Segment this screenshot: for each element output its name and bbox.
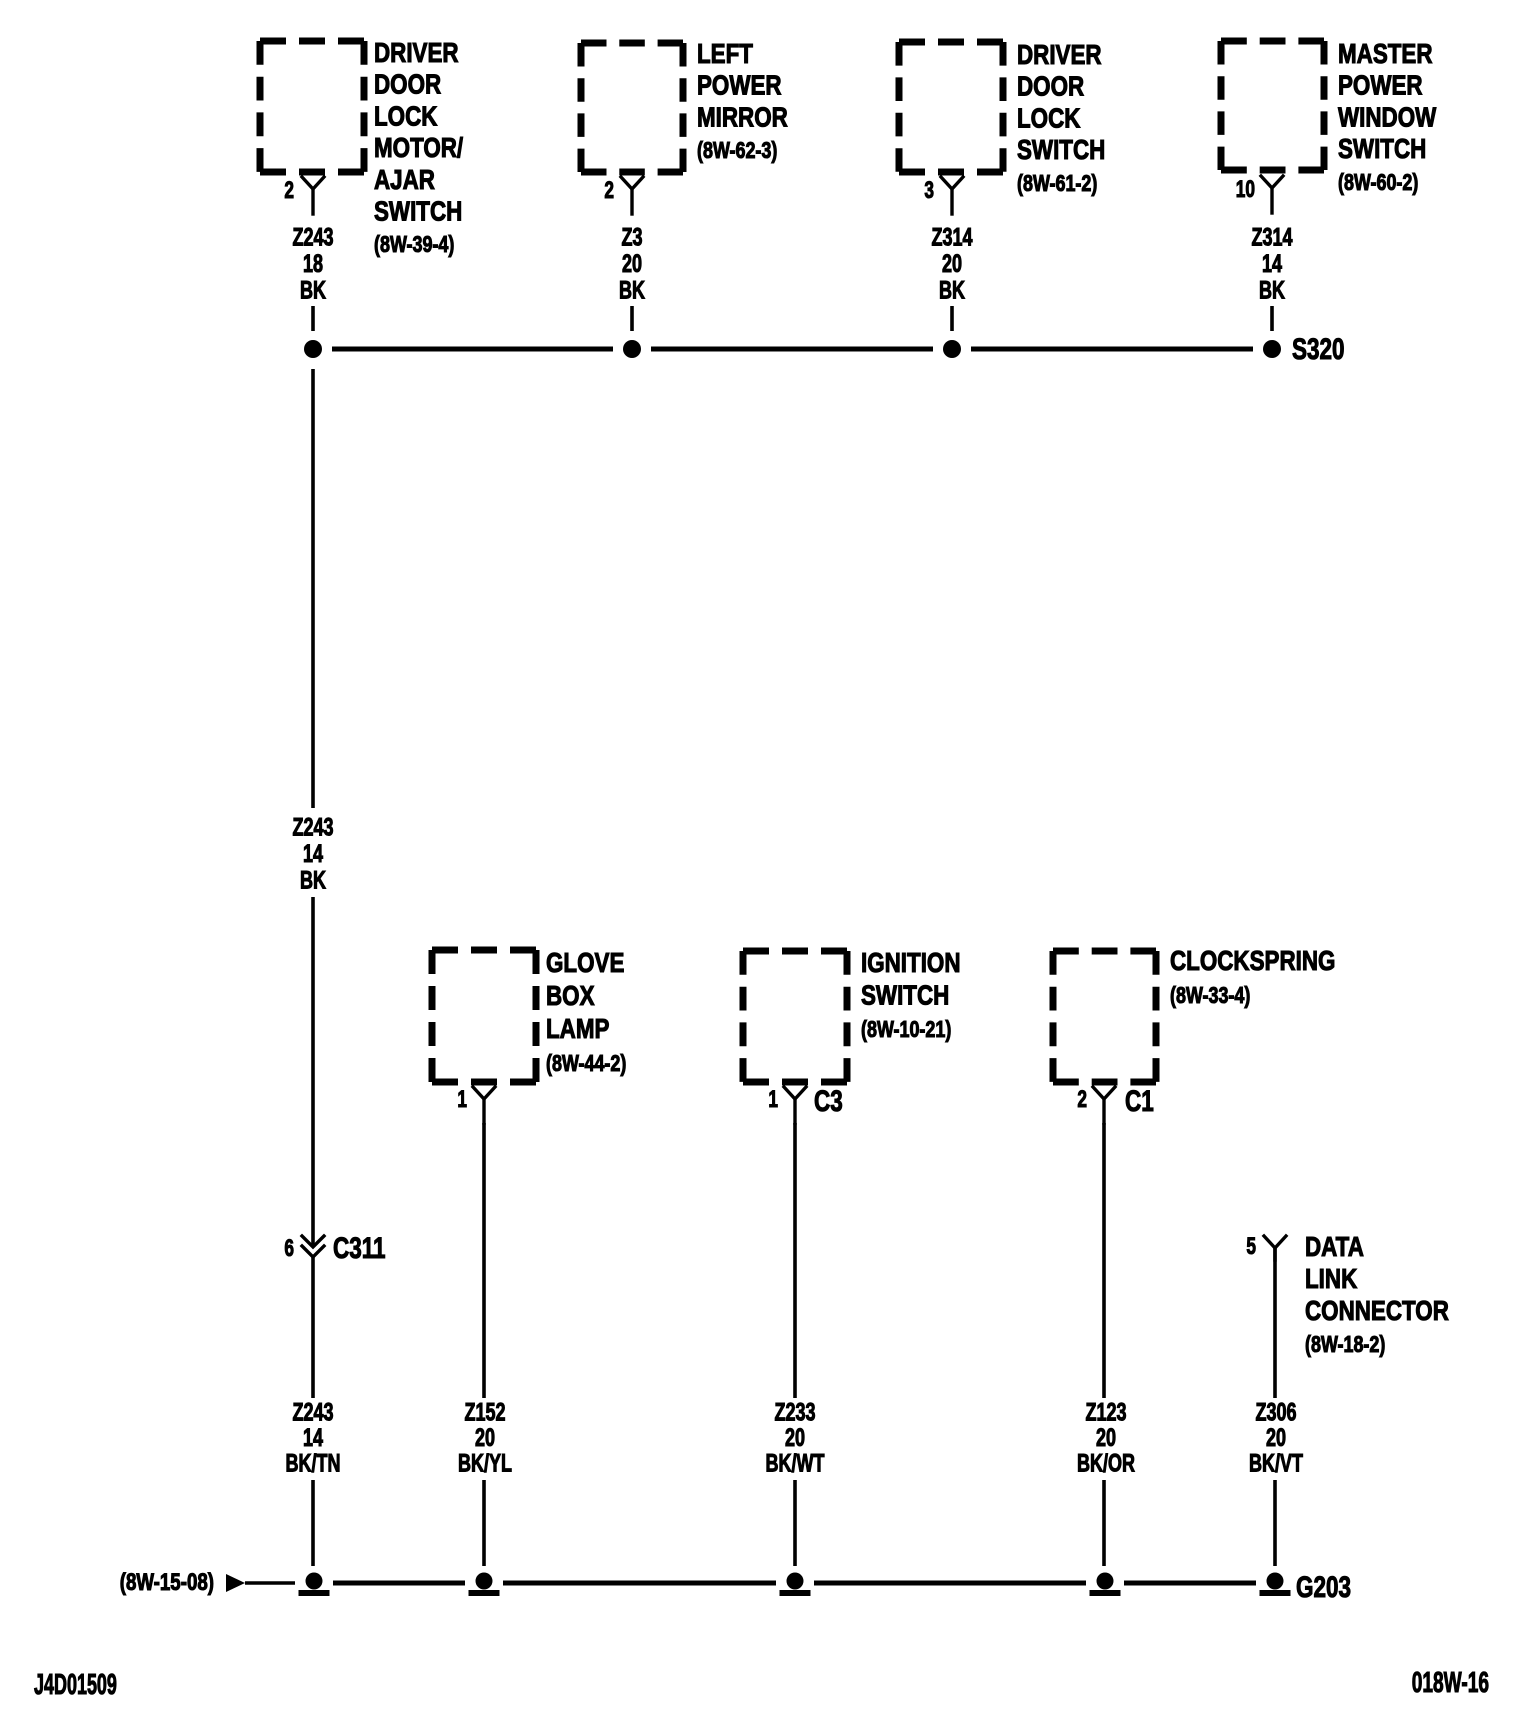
svg-text:LOCK: LOCK [374, 101, 438, 132]
label: data link connector [1305, 1232, 1449, 1358]
svg-text:14: 14 [303, 839, 323, 868]
wire label Z243 14 BK/TN [286, 1398, 341, 1478]
ground splice dot (Z306 / G203) [1267, 1573, 1284, 1590]
wire label Z314 20 BK [931, 223, 972, 305]
svg-text:SWITCH: SWITCH [861, 980, 949, 1011]
svg-text:(8W-60-2): (8W-60-2) [1338, 170, 1418, 196]
svg-text:Z233: Z233 [774, 1398, 815, 1427]
wire: Z123 drop [1102, 1123, 1106, 1398]
svg-text:BK/VT: BK/VT [1249, 1449, 1304, 1478]
component box: driver door lock switch [899, 42, 1003, 172]
svg-text:BOX: BOX [546, 981, 595, 1012]
svg-text:LAMP: LAMP [546, 1014, 610, 1045]
component box: glove box lamp [432, 950, 536, 1082]
svg-text:DATA: DATA [1305, 1232, 1364, 1263]
svg-text:2: 2 [284, 177, 294, 203]
svg-text:LINK: LINK [1305, 1264, 1358, 1295]
label: driver door lock switch [1017, 40, 1105, 197]
wire: ground bus to G203 [245, 1581, 295, 1585]
svg-text:MIRROR: MIRROR [697, 102, 788, 133]
svg-text:(8W-62-3): (8W-62-3) [697, 138, 777, 164]
svg-text:MOTOR/: MOTOR/ [374, 133, 463, 164]
wire: Z152 drop [482, 1123, 486, 1398]
component box: clockspring [1053, 951, 1156, 1082]
ground splice dot (Z123) [1097, 1573, 1114, 1590]
svg-text:(8W-61-2): (8W-61-2) [1017, 171, 1097, 197]
svg-text:Z243: Z243 [292, 1398, 333, 1427]
svg-text:POWER: POWER [1338, 70, 1423, 101]
svg-text:20: 20 [622, 249, 642, 278]
wire: Z233 to ground bus [793, 1480, 797, 1566]
svg-text:CLOCKSPRING: CLOCKSPRING [1170, 946, 1335, 977]
svg-text:(8W-44-2): (8W-44-2) [546, 1051, 626, 1077]
connector fork pin 2 of left power mirror [604, 177, 643, 214]
wire label Z243 18 BK [292, 223, 333, 305]
connector fork pin 2 of driver door lock motor [284, 177, 324, 214]
wire label Z123 20 BK/OR [1077, 1398, 1135, 1478]
wire: Z123 to ground bus [1102, 1480, 1106, 1566]
splice junction dot (left power mirror) [623, 340, 641, 358]
svg-text:WINDOW: WINDOW [1338, 102, 1436, 133]
svg-text:Z306: Z306 [1255, 1398, 1296, 1427]
connector fork pin 3 of driver door lock switch [924, 177, 963, 214]
svg-text:Z314: Z314 [1251, 223, 1292, 252]
svg-text:BK/YL: BK/YL [458, 1449, 512, 1478]
label: ignition switch [861, 948, 961, 1043]
wire label Z3 20 BK [619, 223, 645, 305]
svg-text:BK: BK [300, 866, 326, 895]
svg-text:20: 20 [785, 1423, 805, 1452]
svg-text:(8W-10-21): (8W-10-21) [861, 1017, 951, 1043]
svg-text:2: 2 [1077, 1086, 1087, 1112]
svg-text:(8W-18-2): (8W-18-2) [1305, 1332, 1385, 1358]
svg-text:1: 1 [457, 1086, 467, 1112]
connector fork pin 5 of data link connector [1246, 1233, 1286, 1260]
ground splice dot (Z243) [306, 1573, 323, 1590]
ground splice bar (Z152) [469, 1590, 500, 1596]
splice junction dot left [304, 340, 322, 358]
svg-text:IGNITION: IGNITION [861, 948, 961, 979]
svg-text:5: 5 [1246, 1233, 1256, 1259]
svg-text:GLOVE: GLOVE [546, 948, 624, 979]
wire: Z314 drop to splice S320 [1270, 306, 1274, 331]
svg-text:J4D01509: J4D01509 [34, 1669, 117, 1701]
svg-text:BK/TN: BK/TN [286, 1449, 341, 1478]
in-line connector C311 chevrons [302, 1236, 324, 1257]
label: master power window switch [1338, 39, 1436, 196]
svg-text:(8W-15-08): (8W-15-08) [120, 1569, 214, 1596]
svg-text:20: 20 [475, 1423, 495, 1452]
svg-text:BK/WT: BK/WT [766, 1449, 826, 1478]
svg-text:BK/OR: BK/OR [1077, 1449, 1135, 1478]
svg-text:LEFT: LEFT [697, 39, 753, 70]
wire label Z233 20 BK/WT [766, 1398, 826, 1478]
wire: Z314 drop to bus [950, 306, 954, 331]
ground splice dot (Z152) [476, 1573, 493, 1590]
svg-text:BK: BK [300, 276, 326, 305]
wire: Z152 to ground bus [482, 1480, 486, 1566]
svg-text:1: 1 [768, 1086, 778, 1112]
wire: Z243 14 BK vertical run to connector C311 [311, 897, 315, 1247]
wire: ground bus to splice S320 [332, 347, 1253, 352]
connector fork pin 1 connector C3 of ignition switch [768, 1086, 806, 1123]
connector fork pin 1 of glove box lamp [457, 1086, 495, 1123]
svg-text:G203: G203 [1296, 1570, 1351, 1604]
label: driver door lock motor/ajar switch [374, 38, 463, 258]
svg-text:C1: C1 [1125, 1084, 1154, 1118]
svg-text:Z152: Z152 [464, 1398, 505, 1427]
svg-text:20: 20 [1266, 1423, 1286, 1452]
svg-text:(8W-39-4): (8W-39-4) [374, 232, 454, 258]
wire label Z314 14 BK [1251, 223, 1292, 305]
connector fork pin 10 of master power window switch [1236, 176, 1283, 213]
ground splice dot (Z233) [787, 1573, 804, 1590]
svg-text:2: 2 [604, 177, 614, 203]
wire label Z243 14 BK [292, 813, 333, 895]
svg-text:DOOR: DOOR [374, 69, 441, 100]
component box: left power mirror [581, 43, 683, 172]
splice junction dot (driver door lock switch) [943, 340, 961, 358]
ground splice bar (Z306 / G203) [1260, 1590, 1291, 1596]
svg-text:LOCK: LOCK [1017, 103, 1081, 134]
svg-text:3: 3 [924, 177, 934, 203]
label: glove box lamp [546, 948, 626, 1077]
wire: Z306 drop [1273, 1248, 1277, 1398]
svg-text:(8W-33-4): (8W-33-4) [1170, 983, 1250, 1009]
svg-text:Z123: Z123 [1085, 1398, 1126, 1427]
ground splice bar (Z233) [780, 1590, 811, 1596]
label: clockspring [1170, 946, 1335, 1009]
svg-text:18: 18 [303, 249, 323, 278]
svg-text:SWITCH: SWITCH [1338, 134, 1426, 165]
off-page arrow [226, 1574, 245, 1592]
wire label Z306 20 BK/VT [1249, 1398, 1304, 1478]
wire: Z243 below C311 [311, 1255, 315, 1398]
svg-text:10: 10 [1236, 176, 1255, 202]
svg-text:AJAR: AJAR [374, 165, 435, 196]
svg-text:C311: C311 [333, 1231, 386, 1265]
splice S320 junction dot [1263, 340, 1281, 358]
svg-text:SWITCH: SWITCH [1017, 135, 1105, 166]
component box: driver door lock motor/ajar switch [260, 41, 364, 172]
svg-text:POWER: POWER [697, 70, 782, 101]
svg-text:6: 6 [284, 1235, 294, 1261]
svg-text:SWITCH: SWITCH [374, 196, 462, 227]
svg-text:MASTER: MASTER [1338, 39, 1433, 70]
svg-text:BK: BK [619, 276, 645, 305]
svg-text:Z243: Z243 [292, 813, 333, 842]
wire: Z243 14 BK vertical run upper [311, 369, 315, 808]
svg-text:DRIVER: DRIVER [374, 38, 459, 69]
svg-text:14: 14 [1262, 249, 1282, 278]
wire: Z243 drop to splice S320 [311, 306, 315, 331]
wire: Z3 drop to bus [630, 306, 634, 331]
svg-text:018W-16: 018W-16 [1412, 1667, 1489, 1699]
svg-text:Z243: Z243 [292, 223, 333, 252]
svg-text:BK: BK [939, 276, 965, 305]
svg-text:DOOR: DOOR [1017, 71, 1084, 102]
wire: Z233 drop [793, 1123, 797, 1398]
ground splice bar (Z243) [299, 1590, 330, 1596]
component box: ignition switch [743, 951, 847, 1082]
svg-text:BK: BK [1259, 276, 1285, 305]
svg-text:20: 20 [1096, 1423, 1116, 1452]
svg-text:Z314: Z314 [931, 223, 972, 252]
svg-text:CONNECTOR: CONNECTOR [1305, 1296, 1449, 1327]
ground splice bar (Z123) [1090, 1590, 1121, 1596]
wire: Z306 to ground bus [1273, 1480, 1277, 1566]
wire: Z243 to ground bus [311, 1480, 315, 1566]
svg-text:Z3: Z3 [622, 223, 643, 252]
connector fork pin 2 connector C1 of clockspring [1077, 1086, 1115, 1123]
svg-text:20: 20 [942, 249, 962, 278]
svg-text:S320: S320 [1292, 332, 1345, 366]
svg-text:C3: C3 [814, 1084, 843, 1118]
label: left power mirror [697, 39, 788, 164]
wire label Z152 20 BK/YL [458, 1398, 512, 1478]
svg-text:14: 14 [303, 1423, 323, 1452]
svg-text:DRIVER: DRIVER [1017, 40, 1102, 71]
component box: master power window switch [1221, 41, 1324, 170]
